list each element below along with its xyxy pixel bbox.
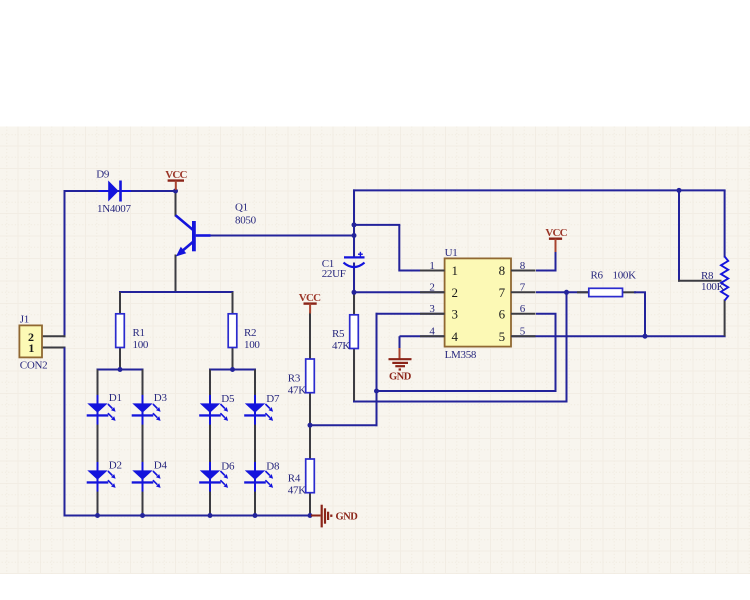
wire LED chain A — [97, 370, 99, 517]
wire into pin 1 — [399, 270, 445, 272]
wire node to R3-R4 junction — [309, 424, 378, 426]
svg-text:7: 7 — [520, 282, 526, 294]
svg-text:CON2: CON2 — [20, 360, 48, 372]
wire Q1 emitter down — [175, 255, 177, 294]
capacitor C1 — [322, 252, 365, 280]
svg-text:R2: R2 — [244, 327, 256, 339]
wire pin 4 — [400, 335, 446, 337]
U1 pin stubs left — [420, 271, 445, 337]
svg-text:1: 1 — [452, 263, 458, 278]
svg-text:100K: 100K — [701, 281, 725, 293]
wire R1 top lead — [119, 292, 121, 315]
svg-text:8050: 8050 — [235, 214, 257, 226]
power VCC R3 — [299, 292, 321, 314]
svg-text:D6: D6 — [221, 460, 235, 472]
junction chain A bottom — [95, 513, 100, 518]
LED D7 — [244, 393, 280, 424]
svg-text:LM358: LM358 — [445, 349, 477, 361]
junction top rail R8 tap — [677, 188, 682, 193]
LED D3 — [132, 392, 168, 424]
wire R5 bottom lead — [353, 348, 355, 402]
svg-text:5: 5 — [499, 329, 505, 344]
wire R8 tap vertical — [678, 190, 680, 281]
wire bracket D5-D7 — [209, 369, 256, 371]
svg-text:R4: R4 — [288, 472, 301, 484]
svg-text:6: 6 — [499, 306, 506, 321]
junction VCC-D9-Q1 — [173, 189, 178, 194]
wire R3 top lead — [309, 312, 311, 360]
op-amp U1 LM358 — [445, 247, 511, 361]
wire VCC to pin8 — [555, 251, 557, 272]
svg-text:3: 3 — [429, 303, 435, 315]
junction base-pin1 node — [352, 222, 357, 227]
svg-text:100: 100 — [133, 339, 149, 351]
svg-text:2: 2 — [452, 285, 458, 300]
ground GND earth below pin4 — [389, 348, 412, 382]
resistor R8 — [701, 257, 728, 301]
svg-text:J1: J1 — [20, 313, 29, 325]
wire left vertical to J1 pin2 — [64, 190, 66, 337]
wire pin4 vertical to GND — [399, 336, 401, 349]
wire pin 6 — [536, 313, 557, 315]
wire node to pin1 horizontal — [354, 224, 400, 226]
connector J1 — [19, 313, 47, 371]
junction R3-R4 divider — [308, 423, 313, 428]
wire R8 bottom lead — [724, 300, 726, 337]
LED D4 — [132, 459, 168, 491]
svg-text:47K: 47K — [288, 484, 306, 496]
svg-text:D7: D7 — [266, 393, 280, 405]
wire pin 8 — [536, 270, 557, 272]
svg-text:8: 8 — [499, 263, 505, 278]
svg-text:8: 8 — [520, 260, 526, 272]
wire R4 bottom lead — [309, 492, 311, 517]
wire R1 bottom lead — [119, 347, 121, 371]
junction R6-pin5 rail — [643, 334, 648, 339]
LED D5 — [199, 393, 235, 424]
resistor R4 — [306, 459, 315, 493]
svg-text:D2: D2 — [109, 459, 122, 471]
svg-text:7: 7 — [499, 285, 506, 300]
wire Q1 base to C1 node — [196, 235, 355, 237]
wire emitter rail R1-R2 — [119, 291, 234, 293]
junction R1 bracket — [118, 367, 123, 372]
LED D1 — [87, 392, 122, 424]
wire J1 pin 2 — [42, 335, 66, 337]
svg-text:2: 2 — [429, 282, 434, 294]
wire R8 top lead — [724, 190, 726, 257]
power VCC main — [165, 169, 187, 190]
ground GND power ground bottom — [311, 505, 358, 528]
wire R2 bottom lead — [232, 347, 234, 371]
wire Q1 collector — [175, 191, 177, 217]
svg-text:D8: D8 — [266, 460, 280, 472]
wire R2 top lead — [232, 292, 234, 315]
junction chain B bottom — [140, 513, 145, 518]
svg-text:100: 100 — [244, 339, 260, 351]
resistor R2 — [228, 314, 237, 348]
wire LED chain B — [142, 370, 144, 517]
U1 pin numbers inside — [452, 263, 506, 344]
resistor R5 — [350, 315, 359, 349]
wire LED chain D — [254, 370, 256, 517]
svg-text:GND: GND — [336, 511, 359, 522]
U1 pin numbers outside — [429, 260, 525, 338]
wire C1 top vertical — [353, 189, 355, 258]
wire pin3 node vertical — [376, 313, 378, 426]
wire R3-R4 link — [309, 391, 311, 460]
wire R6 right lead — [622, 291, 637, 293]
resistor R6 — [589, 269, 636, 296]
diode D9 — [96, 169, 131, 215]
svg-text:VCC: VCC — [299, 292, 321, 304]
svg-text:R6: R6 — [591, 269, 604, 281]
junction pin7-R6 node — [564, 290, 569, 295]
junction pin3-pin6 node — [374, 389, 379, 394]
power VCC U1 pin8 — [545, 227, 567, 252]
wire bracket D1-D3 — [97, 369, 144, 371]
svg-text:1: 1 — [429, 260, 434, 272]
wire R5 to pin7 node horizontal — [353, 401, 568, 403]
svg-text:D5: D5 — [221, 393, 235, 405]
svg-text:5: 5 — [520, 326, 526, 338]
wire D9 top rail — [65, 190, 177, 192]
svg-text:3: 3 — [452, 306, 458, 321]
wire pin 7 to R6 — [536, 291, 590, 293]
wire pin6 to pin3 node — [376, 390, 557, 392]
svg-text:Q1: Q1 — [235, 201, 248, 213]
wire R8 tap horizontal — [678, 280, 722, 282]
junction chain C bottom — [208, 513, 213, 518]
transistor Q1 — [176, 201, 257, 256]
wire LED chain C — [209, 370, 211, 517]
wire top rail to R8 — [353, 189, 726, 191]
svg-text:R5: R5 — [332, 328, 345, 340]
svg-text:D1: D1 — [109, 392, 122, 404]
svg-text:U1: U1 — [445, 247, 458, 259]
wire pin7 node vertical — [566, 292, 568, 402]
svg-text:VCC: VCC — [165, 169, 187, 181]
junction C1-pin2 node — [352, 290, 357, 295]
svg-text:4: 4 — [429, 326, 435, 338]
svg-text:22UF: 22UF — [322, 268, 346, 280]
wire pin 5 rail to R8 bottom — [511, 335, 726, 337]
svg-text:47K: 47K — [288, 384, 306, 396]
wire pin 2 — [353, 291, 446, 293]
svg-text:R3: R3 — [288, 372, 301, 384]
resistor R3 — [306, 359, 315, 393]
resistor R1 — [116, 314, 125, 348]
wire C1 bottom to pin2 node — [353, 263, 355, 294]
wire bottom rail — [64, 515, 311, 517]
wire J1 pin 1 — [42, 347, 66, 349]
svg-text:VCC: VCC — [545, 227, 567, 239]
junction R2 bracket — [230, 367, 235, 372]
LED D6 — [199, 460, 235, 491]
LED D8 — [244, 460, 280, 491]
wire pin6 vertical — [555, 314, 557, 392]
wire R5 top lead — [353, 292, 355, 315]
wire left vertical J1 pin1 to bottom — [64, 348, 66, 517]
wire R6 down to pin5 rail — [644, 292, 646, 337]
svg-text:1: 1 — [28, 341, 34, 355]
junction base node — [352, 233, 357, 238]
svg-text:6: 6 — [520, 303, 526, 315]
svg-text:100K: 100K — [613, 269, 637, 281]
svg-text:D3: D3 — [154, 392, 168, 404]
svg-text:D9: D9 — [96, 169, 110, 181]
U1 pin stubs right — [511, 271, 536, 337]
svg-text:GND: GND — [389, 371, 412, 382]
junction chain D bottom — [253, 513, 258, 518]
wire pin 3 — [376, 313, 446, 315]
svg-text:R1: R1 — [133, 327, 145, 339]
wire pin1 vertical — [398, 225, 400, 272]
LED D2 — [87, 459, 122, 491]
svg-text:4: 4 — [452, 329, 459, 344]
svg-text:1N4007: 1N4007 — [97, 203, 131, 215]
junction R4 bottom — [308, 513, 313, 518]
svg-text:47K: 47K — [332, 340, 350, 352]
svg-text:D4: D4 — [154, 459, 168, 471]
